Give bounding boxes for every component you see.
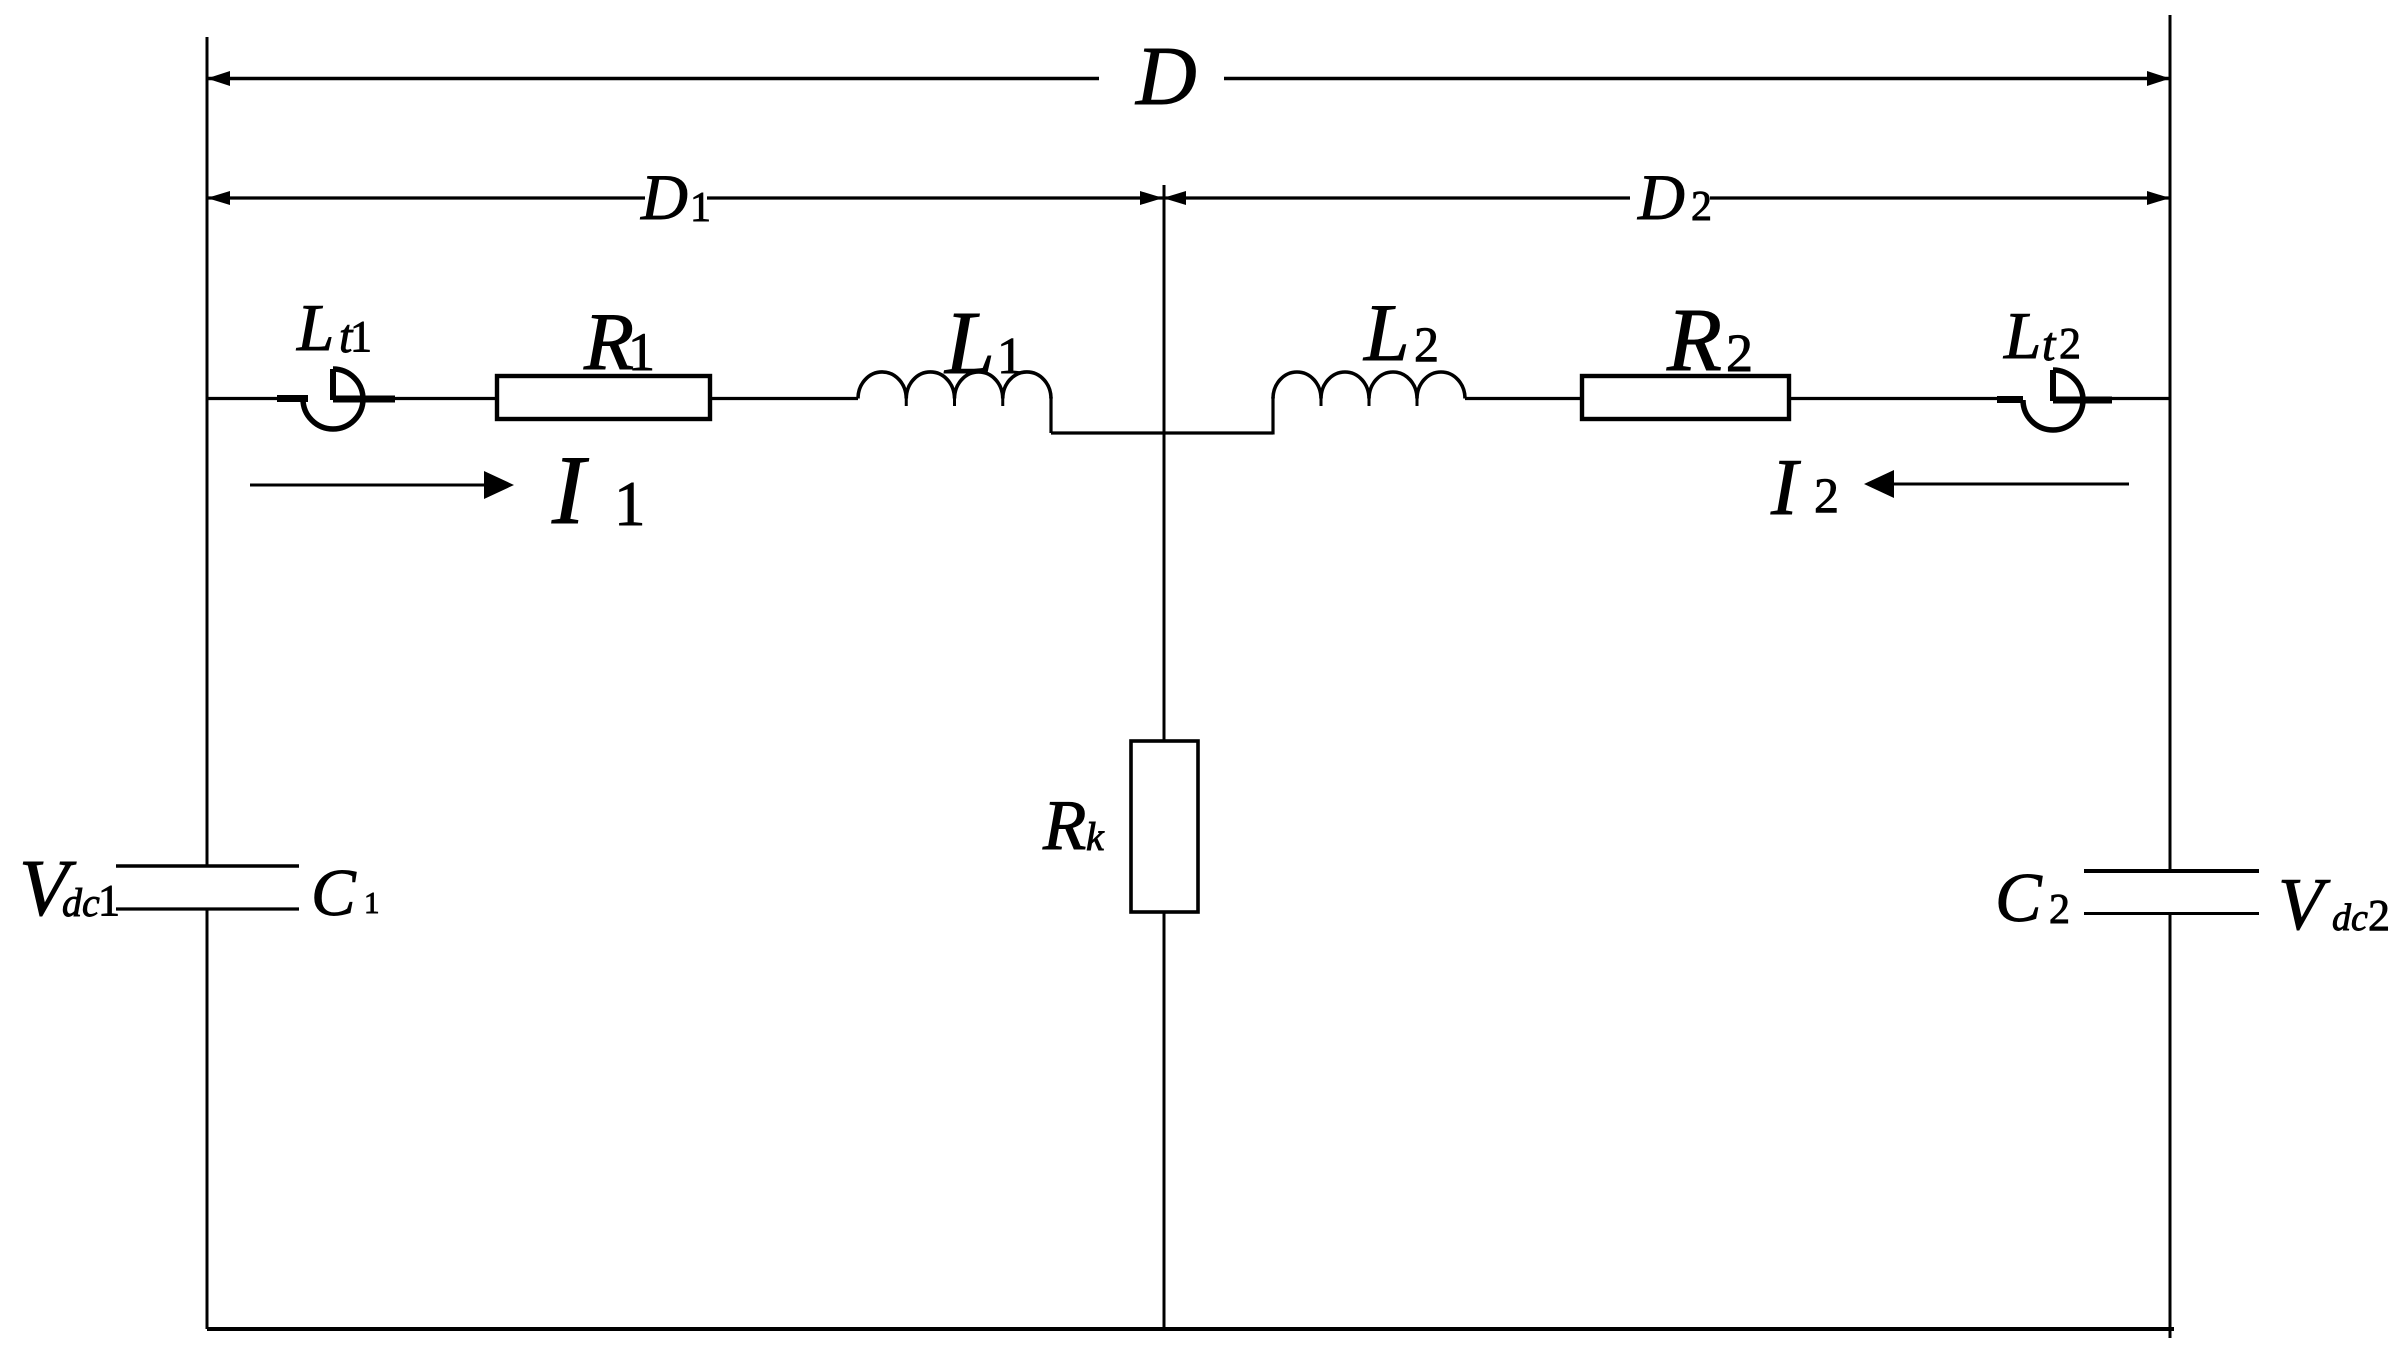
resistor R1 (497, 376, 710, 419)
svg-text:2: 2 (2049, 887, 2070, 933)
svg-text:1: 1 (98, 876, 120, 925)
dimension D (overall) (207, 71, 2170, 86)
svg-text:2: 2 (1691, 184, 1712, 230)
inductor L2 (1273, 372, 1465, 406)
svg-text:D: D (1135, 30, 1197, 123)
wire: thick lead into Lt2 (1997, 396, 2023, 403)
svg-text:V: V (2278, 864, 2331, 946)
svg-text:R: R (583, 296, 634, 387)
svg-text:I: I (1770, 444, 1801, 532)
svg-text:L: L (296, 291, 334, 365)
svg-text:D: D (640, 162, 688, 234)
capacitor C1 (116, 866, 299, 909)
svg-text:C: C (1995, 860, 2043, 937)
svg-text:1: 1 (614, 469, 646, 539)
inductor L1 (858, 372, 1051, 406)
wire: bottom rail (207, 1327, 2174, 1331)
svg-text:1: 1 (997, 328, 1023, 385)
wire: Lt1 to R1 (395, 397, 496, 400)
svg-text:dc: dc (62, 880, 100, 925)
svg-text:D: D (1637, 162, 1685, 234)
capacitor C2 (2084, 871, 2259, 914)
wire: thick lead into Lt1 (277, 395, 308, 402)
svg-text:1: 1 (350, 312, 372, 361)
svg-text:L: L (943, 294, 995, 393)
svg-text:I: I (551, 436, 589, 545)
svg-text:L: L (2003, 299, 2041, 373)
current arrow I1 (250, 471, 514, 499)
svg-text:k: k (1086, 814, 1105, 859)
wire: L2 to R2 (1465, 397, 1581, 400)
svg-text:L: L (1363, 287, 1410, 378)
wire: center vertical (node between L1 and L2 down to Rk and bottom rail) (1163, 185, 1166, 1329)
svg-text:2: 2 (2368, 891, 2390, 940)
svg-text:R: R (1042, 787, 1086, 865)
inductor Lt1 (single-loop symbol) (303, 369, 363, 429)
wire: right vertical rail / extension line (2169, 15, 2172, 1338)
dimension D2 (right half) (1163, 191, 2170, 205)
svg-text:2: 2 (1726, 323, 1753, 383)
wire: Lt2 to right rail (2112, 397, 2170, 400)
svg-text:C: C (311, 856, 357, 930)
svg-text:dc: dc (2332, 897, 2368, 939)
svg-text:2: 2 (1414, 316, 1439, 372)
svg-text:R: R (1666, 291, 1722, 390)
svg-text:1: 1 (628, 322, 655, 382)
dimension D1 (left half) (207, 191, 1163, 205)
svg-text:1: 1 (364, 885, 380, 920)
wire: thick lead out of Lt2 (2053, 397, 2112, 404)
wire: R1 to L1 (712, 397, 858, 400)
svg-text:2: 2 (1814, 467, 1839, 523)
svg-text:2: 2 (2059, 319, 2081, 368)
inductor Lt2 (single-loop symbol) (2023, 370, 2083, 430)
svg-text:1: 1 (690, 185, 711, 231)
wire: top bus left segment (207, 397, 278, 400)
wire: thick lead out of Lt1 (333, 396, 395, 403)
current arrow I2 (1864, 470, 2129, 498)
wire: left vertical rail / extension line (206, 37, 209, 1329)
resistor Rk (1131, 741, 1198, 912)
svg-text:t: t (2042, 318, 2057, 371)
wire: L1 down-step to center link (1051, 397, 1273, 435)
resistor R2 (1582, 376, 1789, 419)
wire: R2 to Lt2 (1791, 397, 1998, 400)
